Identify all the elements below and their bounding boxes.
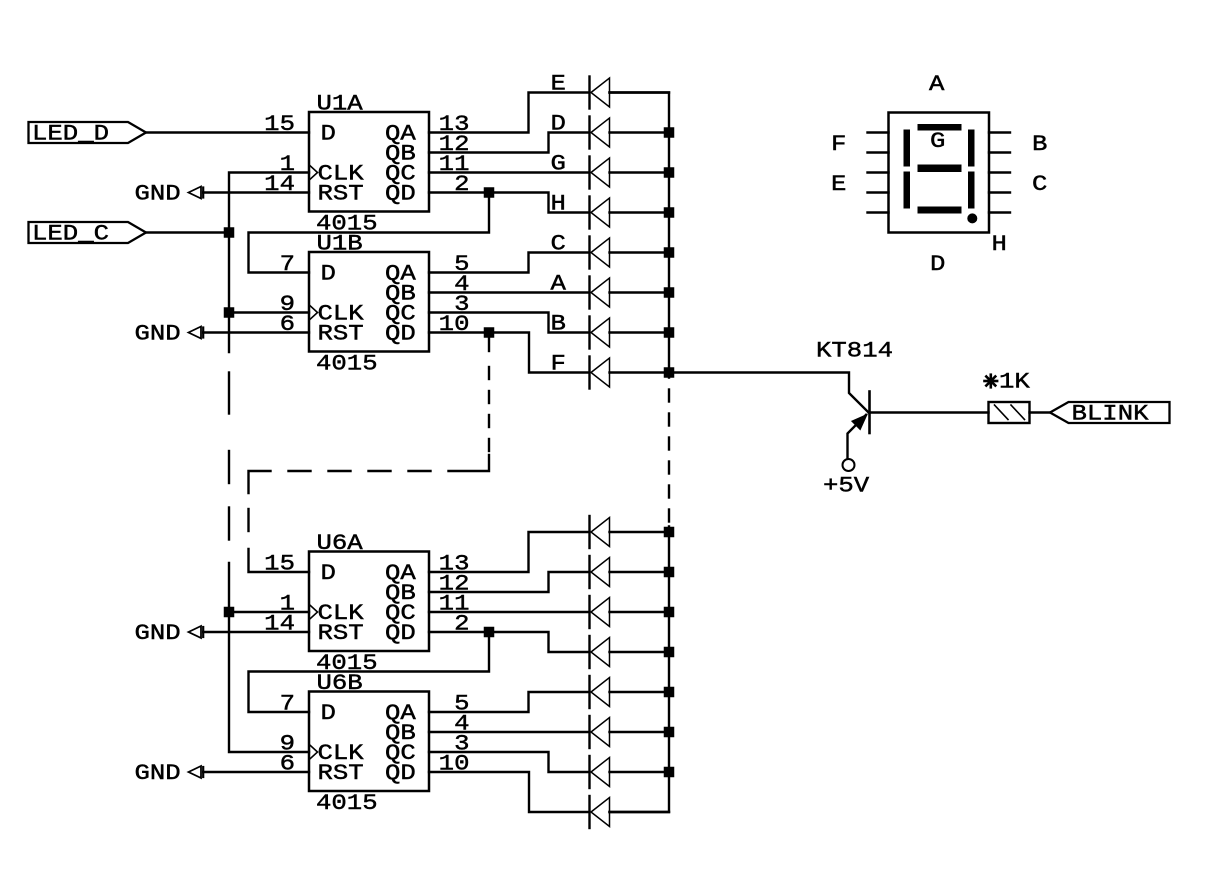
svg-text:QD: QD: [385, 322, 416, 347]
display segment D: [918, 207, 962, 214]
wire F row to transistor collector: [669, 373, 868, 413]
svg-text:GND: GND: [135, 761, 181, 786]
wire GND4 to U6B RST: [203, 771, 309, 773]
wire clock bus vertical bottom solid: [229, 563, 309, 752]
node junction CLK9: [224, 307, 235, 318]
node junction anode bus bottom: [664, 767, 675, 778]
wire dashed cascade left vertical: [247, 509, 249, 531]
wire diode E to bus: [610, 91, 670, 93]
net flag LED_D: [29, 122, 147, 143]
node junction U1B QD10: [484, 327, 495, 338]
display right pin 10: [989, 211, 1010, 213]
node junction U1A QD2: [484, 187, 495, 198]
7-segment display outline: [889, 113, 990, 233]
node junction anode bus: [664, 367, 675, 378]
wire U6B QD10 to diode 16: [429, 772, 589, 812]
wire U1B QB4 to diode A: [429, 291, 589, 293]
svg-text:RST: RST: [318, 761, 364, 786]
diode D6: [588, 277, 590, 309]
transistor Q1 emitter arrow: [852, 415, 867, 430]
wire diode F to bus: [610, 371, 670, 373]
diode D12: [588, 636, 590, 668]
svg-text:1K: 1K: [999, 370, 1031, 395]
wire dashed cascade corner left: [249, 471, 271, 493]
wire diode 14 to bus: [610, 731, 670, 733]
diode D9: [588, 516, 590, 548]
shift register U1B: [309, 252, 429, 352]
diode D13: [588, 676, 590, 708]
svg-text:RST: RST: [318, 182, 364, 207]
wire junction to diode F: [489, 333, 589, 373]
wire U6B QA5 to diode 13: [429, 692, 589, 712]
diode D11: [588, 596, 590, 628]
node junction LED_C clock bus: [224, 227, 235, 238]
diode D16: [588, 796, 590, 828]
clock input wedge U1A: [310, 166, 318, 180]
node junction anode bus: [664, 327, 675, 338]
wire U6A QC11 to diode 11: [429, 611, 589, 613]
clock input wedge U6A: [310, 605, 318, 619]
wire dashed cascade corner right: [449, 455, 490, 471]
diode D3: [588, 157, 590, 189]
wire U6B QC3 to diode 15: [429, 752, 589, 772]
display segment A: [918, 124, 962, 131]
wire U1A QA13 to diode E: [429, 93, 589, 133]
svg-text:U6A: U6A: [317, 531, 364, 556]
display left pin 4: [868, 191, 889, 193]
svg-text:D: D: [321, 122, 336, 147]
node junction anode bus: [664, 167, 675, 178]
node junction anode bus bottom: [664, 687, 675, 698]
wire diode 9 to bus: [610, 531, 670, 533]
wire dashed cascade U1B QD down: [488, 338, 490, 351]
wire diode 15 to bus: [610, 771, 670, 773]
wire diode B to bus: [610, 331, 670, 333]
svg-text:RST: RST: [318, 322, 364, 347]
svg-text:4015: 4015: [316, 352, 378, 377]
svg-text:E: E: [551, 72, 566, 97]
transistor Q1 emitter: [848, 415, 867, 459]
wire clock bus to U6A CLK pin 1: [229, 611, 309, 613]
display decimal point H: [967, 213, 977, 223]
display left pin 2: [868, 151, 889, 153]
wire diode 12 to bus: [610, 651, 670, 653]
svg-text:15: 15: [264, 112, 295, 137]
wire diode C to bus: [610, 251, 670, 253]
wire diode H to bus: [610, 211, 670, 213]
svg-text:F: F: [831, 132, 846, 157]
node junction anode bus: [664, 287, 675, 298]
display segment G: [918, 165, 962, 173]
wire U1A QB12 to diode D: [429, 133, 589, 153]
svg-text:U1B: U1B: [317, 232, 363, 257]
net flag BLINK: [1050, 402, 1170, 423]
display segment E: [904, 172, 911, 209]
svg-text:QD: QD: [385, 761, 416, 786]
svg-text:LED_C: LED_C: [32, 222, 109, 247]
diode D1: [588, 77, 590, 109]
wire junction to diode 12: [489, 632, 589, 652]
transistor Q1 base wire: [870, 411, 989, 413]
wire diode D to bus: [610, 131, 670, 133]
svg-text:GND: GND: [135, 621, 181, 646]
clock input wedge U6B: [310, 745, 318, 759]
wire GND3 to U6A RST: [203, 631, 309, 633]
display left pin 1: [868, 131, 889, 133]
svg-text:4015: 4015: [316, 791, 378, 816]
svg-text:A: A: [929, 72, 945, 97]
node junction anode bus: [664, 207, 675, 218]
wire U1B QD10 to junction: [429, 331, 489, 333]
wire cascade U1A QD to U1B D pin 7: [249, 193, 490, 273]
power terminal +5V circle: [843, 459, 855, 471]
wire U1B QC3 to diode B: [429, 313, 589, 333]
svg-text:G: G: [930, 129, 945, 154]
display right pin 9: [989, 191, 1010, 193]
node junction anode bus bottom: [664, 727, 675, 738]
wire diode G to bus: [610, 171, 670, 173]
svg-text:C: C: [551, 232, 566, 257]
svg-text:B: B: [1032, 132, 1047, 157]
transistor Q1 base bar: [868, 392, 871, 434]
wire resistor to BLINK flag: [1030, 411, 1051, 413]
svg-text:E: E: [831, 172, 846, 197]
svg-text:GND: GND: [135, 322, 181, 347]
wire LED_D to U1A pin D: [146, 131, 309, 133]
wire clock bus vertical top solid: [229, 173, 309, 353]
wire anode bus top: [610, 93, 670, 378]
node junction U6A CLK1: [224, 607, 235, 618]
display right pin 7: [989, 151, 1010, 153]
wire U1A QD2 to junction: [429, 191, 489, 193]
node junction anode bus bottom: [664, 607, 675, 618]
diode D4: [588, 197, 590, 229]
diode D7: [588, 317, 590, 349]
display left pin 5: [868, 211, 889, 213]
display right pin 6: [989, 131, 1010, 133]
diode D2: [588, 117, 590, 149]
svg-text:H: H: [551, 192, 566, 217]
diode D14: [588, 716, 590, 748]
resistor R1 hatch 2: [1011, 405, 1025, 420]
clock input wedge U1B: [310, 306, 318, 320]
svg-text:15: 15: [264, 552, 295, 577]
svg-text:D: D: [321, 262, 336, 287]
node junction anode bus: [664, 127, 675, 138]
svg-text:LED_D: LED_D: [32, 122, 109, 147]
node junction anode bus: [664, 247, 675, 258]
svg-text:RST: RST: [318, 621, 364, 646]
display segment B: [968, 130, 975, 167]
wire diode 16 to bus: [610, 811, 670, 813]
node junction anode bus bottom: [664, 567, 675, 578]
wire junction to diode H: [489, 193, 589, 213]
wire GND2 to U1B RST: [203, 331, 309, 333]
wire diode 11 to bus: [610, 611, 670, 613]
display segment C: [968, 172, 975, 209]
wire U1B QA5 to diode C: [429, 253, 589, 273]
wire U1A QC11 to diode G: [429, 171, 589, 173]
diode D10: [588, 556, 590, 588]
wire anode bus bottom: [610, 527, 670, 813]
net flag LED_C: [29, 222, 147, 243]
svg-text:U1A: U1A: [317, 92, 364, 117]
svg-text:D: D: [930, 252, 945, 277]
wire LED_C to clock bus: [146, 231, 228, 233]
wire U6A QA13 to diode 9: [429, 532, 589, 572]
svg-text:D: D: [321, 701, 336, 726]
svg-text:G: G: [551, 152, 566, 177]
shift register U6B: [309, 692, 429, 792]
svg-text:C: C: [1032, 172, 1047, 197]
svg-text:B: B: [551, 312, 566, 337]
wire dashed cascade horizontal: [409, 470, 431, 472]
diode D8: [588, 357, 590, 389]
wire clock bus dashed continuation: [228, 373, 230, 414]
resistor R1 value asterisk: [985, 380, 998, 383]
display left pin 3: [868, 171, 889, 173]
svg-text:A: A: [551, 272, 567, 297]
svg-text:+5V: +5V: [823, 474, 870, 499]
shift register U6A: [309, 552, 429, 652]
svg-text:H: H: [992, 232, 1007, 257]
svg-text:BLINK: BLINK: [1072, 402, 1150, 427]
shift register U1A: [309, 112, 429, 212]
wire anode bus dashed middle: [668, 390, 670, 402]
svg-text:D: D: [551, 112, 566, 137]
wire diode A to bus: [610, 291, 670, 293]
wire GND1 to U1A RST: [203, 191, 309, 193]
node junction anode bus bottom: [664, 647, 675, 658]
resistor R1 hatch 1: [995, 405, 1009, 420]
wire cascade U6A QD to U6B D pin 7: [249, 632, 490, 712]
wire U6A QD2 to junction: [429, 631, 489, 633]
wire clock bus to U1B CLK pin 9: [229, 311, 309, 313]
svg-text:F: F: [551, 352, 566, 377]
node junction anode bus bottom: [664, 527, 675, 538]
resistor R1 body: [989, 402, 1030, 423]
wire U6B QB4 to diode 14: [429, 731, 589, 733]
svg-text:QD: QD: [385, 621, 416, 646]
wire diode 13 to bus: [610, 691, 670, 693]
wire cascade into U6A D pin 15: [249, 549, 310, 572]
svg-text:QD: QD: [385, 182, 416, 207]
wire diode 10 to bus: [610, 571, 670, 573]
svg-text:KT814: KT814: [816, 339, 893, 364]
diode D5: [588, 237, 590, 269]
svg-text:U6B: U6B: [317, 671, 363, 696]
svg-text:D: D: [321, 561, 336, 586]
diode D15: [588, 756, 590, 788]
wire U6A QB12 to diode 10: [429, 572, 589, 592]
node junction U6A QD2: [484, 627, 495, 638]
display segment F: [904, 130, 911, 167]
display right pin 8: [989, 171, 1010, 173]
svg-text:GND: GND: [135, 182, 181, 207]
